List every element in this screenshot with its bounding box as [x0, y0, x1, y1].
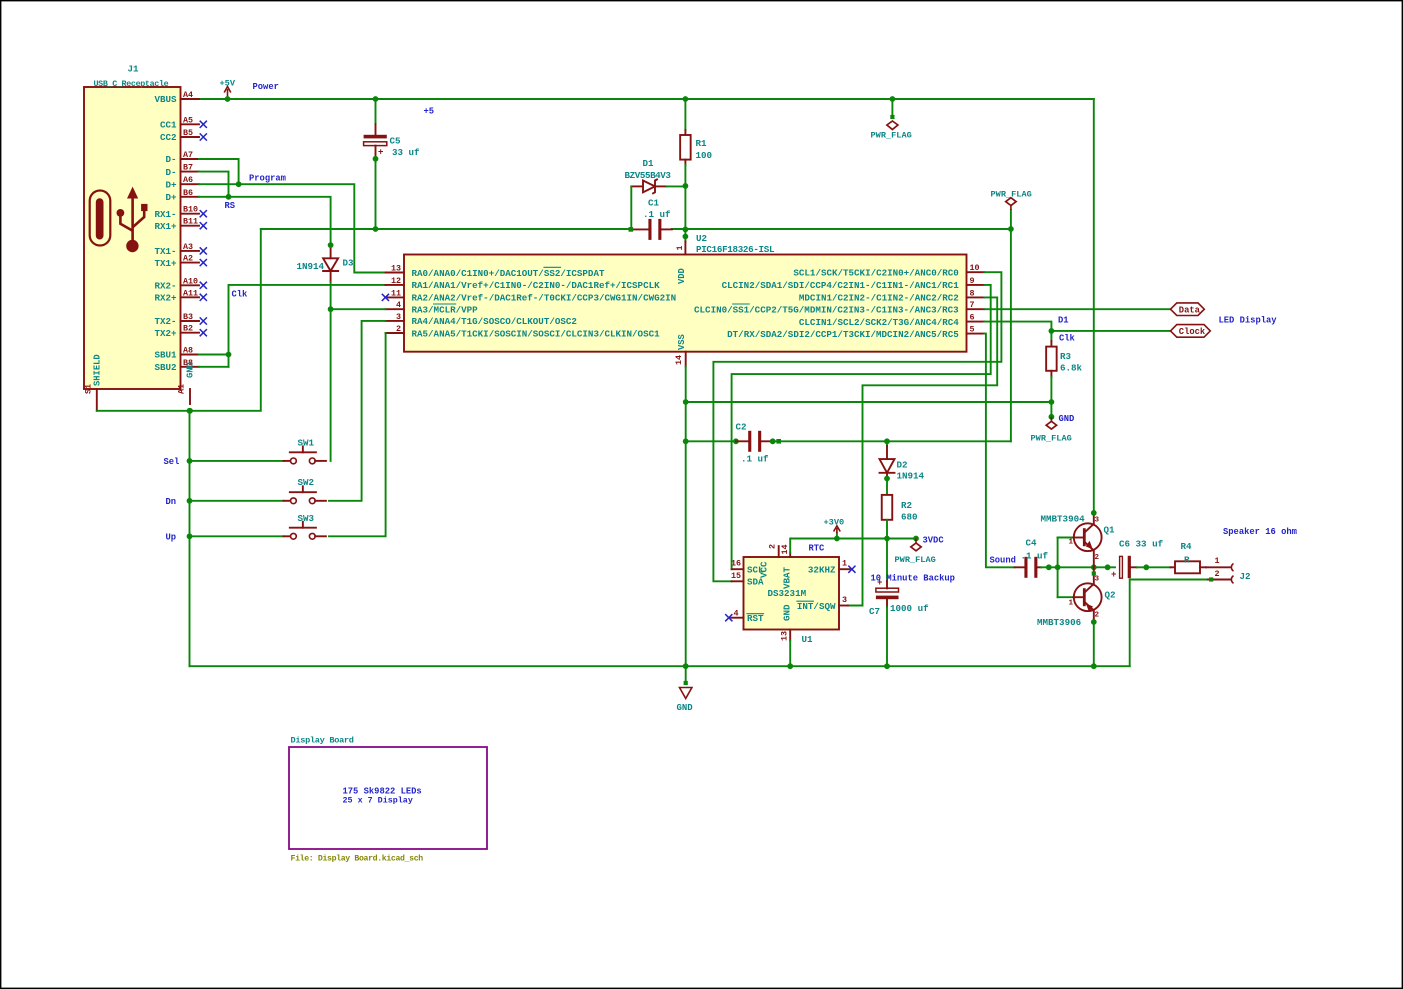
J1 pin A6 D+: [165, 175, 199, 190]
svg-text:1N914: 1N914: [297, 261, 325, 272]
wire SW3 left: [190, 535, 284, 537]
wire C7 bottom: [886, 599, 888, 666]
U2 pin 6 RC4: [799, 313, 984, 328]
junction Program A6/A7: [236, 181, 242, 187]
junction C1 right VDD: [683, 227, 689, 233]
junction C5 bottom lead: [373, 156, 379, 162]
J1 pin B8 SBU2: [154, 358, 199, 373]
svg-text:RX1-: RX1-: [154, 209, 176, 220]
wire y229 horizontal left: [261, 228, 631, 230]
U2 pin 13 RA0: [386, 264, 605, 279]
J1 pin B3 TX2-: [154, 312, 199, 327]
wire pin7 Data: [984, 308, 1170, 310]
wire Q2 base: [1058, 596, 1084, 598]
svg-text:A8: A8: [183, 346, 193, 356]
junction C5 top rail: [373, 96, 379, 102]
J1 pin B5 CC2: [160, 128, 199, 143]
svg-text:7: 7: [970, 300, 975, 310]
junction base split: [1055, 564, 1061, 570]
wire pin8 to RTC INT: [848, 297, 997, 605]
wire y441 left: [686, 440, 736, 442]
svg-text:D3: D3: [343, 258, 355, 269]
svg-text:File: Display Board.kicad_sch: File: Display Board.kicad_sch: [291, 854, 424, 864]
junction emitters: [1091, 564, 1097, 570]
label sheet note display: [343, 796, 413, 806]
svg-text:D+: D+: [165, 179, 177, 190]
svg-text:3: 3: [396, 312, 401, 322]
svg-text:RTC: RTC: [809, 544, 826, 554]
junction R1 top rail: [683, 96, 689, 102]
label D2: [897, 460, 908, 471]
svg-text:6.8k: 6.8k: [1060, 363, 1083, 374]
label Q2: [1105, 590, 1116, 601]
U2 pin 2 RA5: [386, 324, 661, 339]
junction SW3 left rail: [187, 533, 193, 539]
U2 pin 8 RC2: [799, 288, 984, 303]
svg-text:8: 8: [970, 288, 975, 298]
wire D2 top lead: [886, 441, 888, 459]
wire Q1 base: [1058, 537, 1084, 539]
junction Q1 collector: [1091, 510, 1097, 516]
label BZV55B4V3: [625, 170, 672, 181]
no-connect X at U1 32KHZ: [848, 566, 855, 573]
resistor R3: [1046, 347, 1082, 374]
svg-text:3VDC: 3VDC: [923, 536, 945, 546]
svg-text:11: 11: [391, 288, 401, 298]
svg-text:SW2: SW2: [298, 477, 315, 488]
usb logo trident: [117, 187, 148, 253]
label Sound: [990, 556, 1016, 566]
svg-text:C5: C5: [390, 136, 402, 147]
wire RA4 pin3 to SW2: [329, 321, 386, 501]
svg-text:1000 uf: 1000 uf: [890, 603, 929, 614]
no-connect X at U2 pin 11: [382, 294, 389, 301]
label Power: [253, 82, 279, 92]
junction D3 anode: [328, 242, 334, 248]
svg-text:14: 14: [780, 544, 790, 554]
no-connect X at J1 pin B2: [200, 329, 207, 336]
svg-text:VBUS: VBUS: [154, 94, 177, 105]
svg-text:VCC: VCC: [759, 561, 770, 578]
diode D2: [880, 459, 895, 478]
svg-text:SHIELD: SHIELD: [93, 354, 103, 386]
junction C1 left: [629, 227, 634, 232]
label U1: [802, 634, 814, 645]
hierarchical label Clock: [1171, 325, 1211, 338]
svg-text:GND: GND: [1059, 414, 1075, 424]
svg-text:+: +: [877, 578, 882, 588]
no-connect X at J1 pin A5: [200, 121, 207, 128]
svg-text:4: 4: [734, 609, 739, 619]
wire R3 top: [1050, 331, 1052, 347]
label net GND: [1059, 414, 1075, 424]
label net D1: [1058, 316, 1069, 326]
J1 pin A7 D-: [165, 150, 199, 165]
U1 pin 4 RST: [731, 609, 764, 625]
wire D- B7 down: [199, 172, 229, 197]
svg-text:RS: RS: [225, 201, 236, 211]
svg-text:2: 2: [768, 544, 778, 549]
U2 pin 4 RA3: [386, 300, 479, 315]
label sheet note LEDs: [343, 786, 422, 796]
junction 3VDC label: [913, 536, 919, 542]
IC U2 body: [404, 255, 967, 352]
wire VBAT to 3VDC: [790, 539, 916, 553]
svg-text:Data: Data: [1179, 305, 1201, 315]
wire 3V to C7: [886, 539, 888, 589]
svg-text:RX1+: RX1+: [154, 221, 177, 232]
switch SW2: [284, 486, 326, 503]
U2 pin 14 VSS: [674, 334, 687, 366]
label 10 Minute Backup: [871, 574, 955, 584]
svg-text:TX1-: TX1-: [154, 246, 176, 257]
svg-text:CC2: CC2: [160, 132, 177, 143]
U1 pin 16 SCL: [731, 559, 764, 576]
wire D- A7 to Program node: [199, 159, 239, 184]
J1 pin A5 CC1: [160, 115, 199, 130]
wire SW2 left: [190, 500, 284, 502]
sheet Display Board: [289, 747, 487, 849]
junction RS B6/B7: [226, 194, 232, 200]
svg-text:10 Minute Backup: 10 Minute Backup: [871, 574, 955, 584]
label PIC16F18326-ISL: [696, 244, 775, 255]
svg-text:1: 1: [1215, 556, 1220, 566]
label U2: [696, 233, 707, 244]
svg-text:A5: A5: [183, 115, 193, 125]
J1 pin A8 SBU1: [154, 346, 199, 361]
U2 pin 9 RC1: [722, 276, 985, 291]
junction RTC VCC drop: [776, 439, 781, 444]
no-connect X at J1 pin A2: [200, 259, 207, 266]
wire Program net A6 to MCU pin13: [199, 184, 386, 272]
svg-text:SW3: SW3: [298, 513, 315, 524]
svg-text:C7: C7: [869, 606, 880, 617]
svg-text:RA2/ANA2/Vref-/DAC1Ref-/T0CKI/: RA2/ANA2/Vref-/DAC1Ref-/T0CKI/CCP3/CWG1I…: [412, 293, 677, 304]
svg-text:Power: Power: [253, 82, 279, 92]
J1 pin B10 RX1-: [154, 205, 199, 220]
wire D1 anode drop: [630, 186, 632, 229]
J1 pin B11 RX1+: [154, 217, 199, 232]
wire pin5 to Sound: [984, 334, 1014, 568]
wire VSS column: [685, 367, 687, 667]
svg-text:R: R: [1184, 554, 1190, 565]
power symbol +5V: [220, 79, 236, 100]
resistor R4: [1171, 541, 1207, 574]
wire C5 top: [375, 99, 377, 135]
label USB_C_Receptacle: [94, 79, 169, 89]
junction C6 left: [1105, 564, 1111, 570]
label MMBT3904: [1041, 513, 1086, 524]
label SW3: [298, 513, 315, 524]
label J1: [128, 64, 140, 75]
junction PWR_FLAG y229: [1008, 226, 1014, 232]
junction VSS y441: [683, 438, 689, 444]
wire MCLR pin4: [331, 308, 386, 310]
U2 pin 10 RC0: [793, 263, 984, 278]
J1 pin B7 D-: [165, 163, 199, 178]
U2 pin 7 RC3: [694, 300, 984, 315]
J1 pin A3 TX1-: [154, 242, 199, 257]
svg-text:R2: R2: [901, 500, 912, 511]
label C1: [648, 198, 660, 209]
svg-text:A7: A7: [183, 150, 193, 160]
svg-text:10: 10: [970, 263, 980, 273]
junction U1 GND rail: [787, 663, 793, 669]
label Q1: [1104, 525, 1116, 536]
svg-text:B7: B7: [183, 163, 193, 173]
svg-text:25 x 7 Display: 25 x 7 Display: [343, 796, 413, 806]
svg-text:.1 uf: .1 uf: [643, 209, 671, 220]
label 3VDC: [923, 536, 945, 546]
label Dn: [166, 497, 177, 507]
svg-text:14: 14: [674, 355, 684, 365]
svg-text:USB_C_Receptacle: USB_C_Receptacle: [94, 79, 169, 89]
junction Q2 emitter mark: [1092, 571, 1096, 575]
svg-text:1: 1: [1069, 539, 1074, 547]
svg-text:CLCIN2/SDA1/SDI/CCP4/C2IN1-/C1: CLCIN2/SDA1/SDI/CCP4/C2IN1-/C1IN1-/ANC1/…: [722, 280, 960, 291]
U2 pin 5 RC5: [727, 325, 984, 340]
svg-text:VDD: VDD: [677, 268, 687, 284]
svg-text:A11: A11: [183, 288, 198, 298]
junction Q2 collector end: [1091, 619, 1097, 625]
diode D3: [323, 246, 338, 282]
label C1 value: [643, 209, 671, 220]
label 1N914 D2: [897, 471, 925, 482]
wire D3 cathode to SW1: [330, 282, 332, 461]
J1 pin A4 VBUS: [154, 90, 199, 105]
junction Clock R3: [1049, 328, 1055, 334]
svg-text:MMBT3906: MMBT3906: [1037, 617, 1081, 628]
svg-text:Q1: Q1: [1104, 525, 1116, 536]
junction +3V0: [834, 536, 840, 542]
wire RS net B6 to D3: [199, 197, 331, 246]
label Display Board: [291, 736, 354, 746]
svg-text:+: +: [1111, 570, 1116, 580]
capacitor C1: [631, 219, 672, 240]
wire pin9 to RTC SCL: [732, 285, 991, 569]
svg-text:PWR_FLAG: PWR_FLAG: [991, 190, 1032, 200]
svg-text:1N914: 1N914: [897, 471, 925, 482]
svg-text:RST: RST: [747, 613, 764, 624]
U2 pin 1 VDD: [675, 242, 687, 285]
junction C7 rail: [884, 663, 890, 669]
resistor R1: [680, 135, 712, 161]
wire bottom GND rail: [190, 665, 1130, 667]
U2 pin 12 RA1: [386, 276, 661, 291]
junction D1 cathode at VDD column: [683, 183, 689, 189]
svg-text:1: 1: [842, 559, 847, 569]
wire PWR_FLAG right vertical: [1010, 210, 1012, 441]
transistor Q2: [1069, 567, 1102, 622]
svg-text:INT/SQW: INT/SQW: [797, 601, 836, 612]
svg-text:15: 15: [731, 571, 741, 581]
no-connect X at J1 pin A11: [200, 294, 207, 301]
label DS3231M: [768, 588, 807, 599]
wire SBU2 B8: [199, 366, 229, 368]
svg-text:SCL1/SCK/T5CKI/C2IN0+/ANC0/RC0: SCL1/SCK/T5CKI/C2IN0+/ANC0/RC0: [793, 268, 958, 279]
label RS: [225, 201, 236, 211]
svg-text:U1: U1: [802, 634, 814, 645]
label sheet file: [291, 854, 424, 864]
wire +5V top rail: [199, 98, 1094, 100]
svg-text:A4: A4: [183, 90, 193, 100]
junction +5V symbol: [225, 96, 231, 102]
junction D2 top: [884, 438, 890, 444]
svg-text:3: 3: [842, 595, 847, 605]
svg-text:U2: U2: [696, 233, 707, 244]
svg-text:D-: D-: [165, 154, 176, 165]
label SW1: [298, 437, 315, 448]
junction SW2 left rail: [187, 498, 193, 504]
power flag PWR_FLAG right: [991, 190, 1032, 211]
U1 pin 2 VCC: [759, 544, 779, 578]
U1 pin 13 wire to rail: [789, 641, 791, 667]
svg-text:C4: C4: [1026, 538, 1038, 549]
diode D1 zener: [631, 179, 685, 194]
no-connect X at U1 RST: [725, 614, 732, 621]
junction PWR_FLAG top rail: [890, 96, 896, 102]
svg-text:13: 13: [780, 631, 790, 641]
svg-text:TX1+: TX1+: [154, 258, 177, 269]
svg-text:A10: A10: [183, 276, 198, 286]
power flag PWR_FLAG top: [871, 99, 912, 141]
svg-text:3: 3: [1095, 517, 1100, 525]
junction C6 out: [1143, 564, 1149, 570]
wire J2 pin2 to rail: [1130, 580, 1206, 667]
svg-text:D-: D-: [165, 167, 176, 178]
junction MCLR: [328, 306, 334, 312]
svg-text:+5V: +5V: [220, 79, 236, 89]
svg-text:680: 680: [901, 511, 918, 522]
svg-text:LED Display: LED Display: [1219, 316, 1278, 326]
wire SBU1 A8: [199, 354, 229, 356]
label D1: [643, 158, 655, 169]
no-connect X at J1 pin A3: [200, 247, 207, 254]
svg-text:A2: A2: [183, 254, 193, 264]
svg-text:33 uf: 33 uf: [392, 147, 420, 158]
J1 pin B2 TX2+: [154, 324, 199, 339]
svg-text:MDCIN1/C2IN2-/C1IN2-/ANC2/RC2: MDCIN1/C2IN2-/C1IN2-/ANC2/RC2: [799, 293, 959, 304]
svg-text:.1 uf: .1 uf: [741, 454, 769, 465]
svg-text:MMBT3904: MMBT3904: [1041, 513, 1086, 524]
wire Clk vertical pin12 to SBU: [229, 285, 386, 367]
wire y441 right: [771, 440, 1011, 442]
svg-text:VSS: VSS: [677, 334, 687, 350]
svg-text:1: 1: [1069, 600, 1074, 608]
U1 pin 15 SDA: [731, 571, 764, 588]
svg-text:B10: B10: [183, 205, 198, 215]
capacitor C4: [1015, 538, 1049, 578]
label RTC: [809, 544, 826, 554]
svg-text:4: 4: [396, 300, 401, 310]
svg-text:Clk: Clk: [1059, 334, 1076, 344]
svg-text:RX2-: RX2-: [154, 281, 176, 292]
svg-text:PWR_FLAG: PWR_FLAG: [871, 131, 912, 141]
svg-text:R1: R1: [696, 138, 708, 149]
no-connect X at J1 pin A10: [200, 282, 207, 289]
svg-text:SBU2: SBU2: [154, 362, 176, 373]
junction GND label: [1049, 414, 1055, 420]
capacitor C7: [869, 578, 929, 617]
junction C2 right: [770, 438, 776, 444]
svg-text:Sel: Sel: [164, 457, 180, 467]
svg-text:Speaker 16 ohm: Speaker 16 ohm: [1223, 527, 1297, 537]
hierarchical label Data: [1171, 303, 1205, 316]
label Program: [249, 174, 286, 184]
junction R3 y402: [1049, 399, 1055, 405]
svg-text:GND: GND: [677, 703, 694, 713]
svg-text:2: 2: [396, 324, 401, 334]
svg-text:C1: C1: [648, 198, 660, 209]
junction VSS y402: [683, 399, 689, 405]
J1 pin A2 TX1+: [154, 254, 199, 269]
wire Q2 collector to rail: [1093, 622, 1095, 666]
svg-text:100: 100: [696, 150, 713, 161]
svg-text:.1 uf: .1 uf: [1021, 551, 1049, 562]
svg-text:RA1/ANA1/Vref+/C1IN0-/C2IN0-/D: RA1/ANA1/Vref+/C1IN0-/C2IN0-/DAC1Ref+/IC…: [412, 280, 661, 291]
power symbol +3V0: [824, 518, 845, 539]
svg-text:PIC16F18326-ISL: PIC16F18326-ISL: [696, 244, 775, 255]
svg-text:BZV55B4V3: BZV55B4V3: [625, 170, 672, 181]
svg-text:VBAT: VBAT: [782, 566, 793, 589]
IC U1 body: [744, 557, 840, 630]
svg-text:R4: R4: [1181, 541, 1193, 552]
junction VDD pin top: [683, 234, 689, 240]
U1 pin 14 VBAT: [780, 544, 793, 589]
svg-text:D+: D+: [165, 192, 177, 203]
junction VSS bottom rail: [683, 663, 689, 669]
junction SW1 left rail: [187, 458, 193, 464]
switch SW3: [284, 522, 326, 539]
svg-text:2: 2: [1215, 569, 1220, 579]
U1 pin 3 INT/SQW: [797, 595, 848, 612]
svg-text:5: 5: [970, 325, 975, 335]
wire y402 VSS to R3: [686, 401, 1052, 403]
junction C4 out: [1046, 564, 1052, 570]
J1 pin B6 D+: [165, 188, 199, 203]
svg-text:2: 2: [1095, 554, 1100, 562]
label net Clk: [1059, 334, 1076, 344]
svg-text:Clk: Clk: [232, 290, 249, 300]
svg-text:CLCIN1/SCL2/SCK2/T3G/ANC4/RC4: CLCIN1/SCL2/SCK2/T3G/ANC4/RC4: [799, 317, 959, 328]
transistor Q1: [1069, 513, 1102, 567]
wire R2 bottom: [886, 520, 888, 539]
wire left GND vertical: [189, 411, 191, 666]
capacitor C5: [364, 135, 420, 158]
svg-text:B2: B2: [183, 324, 193, 334]
wire base splitter: [1057, 538, 1059, 598]
capacitor C2: [736, 422, 772, 465]
power flag PWR_FLAG mid: [1031, 417, 1072, 444]
label SW2: [298, 477, 315, 488]
svg-text:+: +: [378, 148, 383, 158]
svg-text:Program: Program: [249, 174, 286, 184]
svg-text:CLCIN0/SS1/CCP2/T5G/MDMIN/C2IN: CLCIN0/SS1/CCP2/T5G/MDMIN/C2IN3-/C1IN3-/…: [694, 305, 959, 316]
label LED Display: [1219, 316, 1278, 326]
wire y229 horizontal right: [672, 228, 1011, 230]
J1 pin S1 SHIELD: [84, 354, 103, 410]
wire C6 right: [1131, 566, 1171, 568]
svg-text:12: 12: [391, 276, 401, 286]
svg-text:9: 9: [970, 276, 975, 286]
label J2: [1240, 571, 1251, 582]
no-connect X at J1 pin B11: [200, 222, 207, 229]
svg-text:PWR_FLAG: PWR_FLAG: [1031, 434, 1072, 444]
U1 pin 1 32KHZ: [808, 559, 850, 576]
svg-text:D1: D1: [643, 158, 655, 169]
svg-text:CC1: CC1: [160, 120, 177, 131]
svg-text:16: 16: [731, 559, 741, 569]
